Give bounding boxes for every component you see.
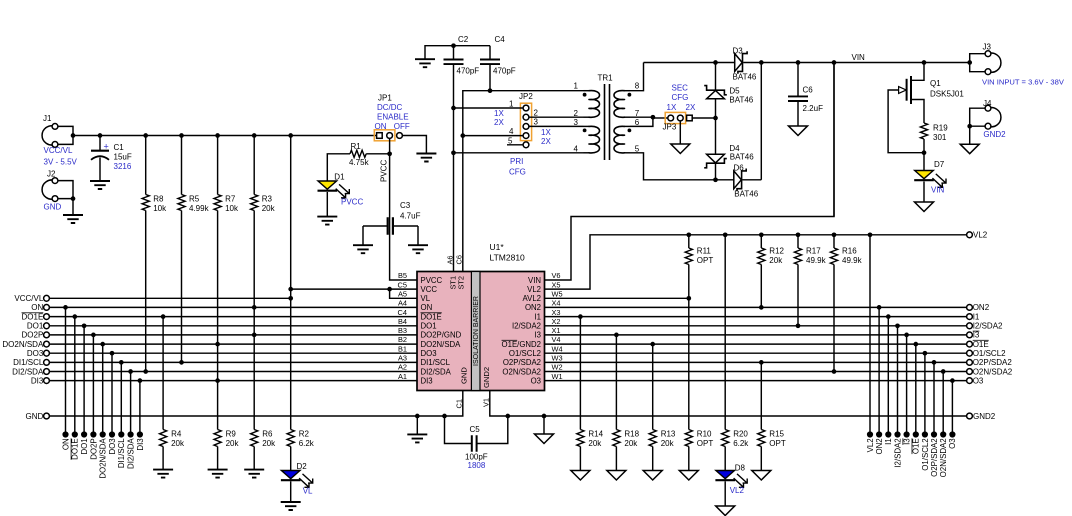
svg-text:R19: R19 [933,124,948,133]
resistor R20 [722,430,729,447]
wire D8 to ground [724,481,726,506]
connector J1 [42,126,55,145]
svg-text:2X: 2X [686,103,696,112]
wire DO1 fan drop [83,326,85,435]
resistor R4 [160,430,167,447]
wire O1/SCL2 row [545,352,967,354]
svg-text:D7: D7 [934,160,945,169]
svg-text:J2: J2 [47,170,56,179]
svg-text:Q1: Q1 [930,79,941,88]
wire O2N/SDA2 row [545,371,967,373]
svg-text:B4: B4 [398,317,407,326]
svg-text:PVCC: PVCC [380,160,389,182]
svg-text:DI1/SCL: DI1/SCL [421,358,451,367]
svg-text:I3: I3 [973,331,980,340]
svg-text:A5: A5 [398,290,407,299]
junction O1E fan [913,342,918,347]
wire D2 to ground [290,481,292,501]
wire GND row [49,391,462,417]
svg-text:DO2P: DO2P [22,331,44,340]
svg-text:3: 3 [574,118,579,127]
node ON2 test point [876,431,882,437]
svg-text:X3: X3 [552,308,561,317]
svg-text:DO1E: DO1E [71,438,80,460]
svg-text:O3: O3 [948,438,957,449]
svg-text:15uF: 15uF [114,153,132,162]
junction ST1 JP2 pin1 [451,106,456,111]
wire ON2 fan drop [878,307,880,434]
junction O2N/SDA2 fan [941,369,946,374]
transistor Q1 [910,76,912,104]
wire I3 fan drop [906,335,908,435]
wire I1 row [545,316,967,318]
svg-text:R10: R10 [697,430,712,439]
svg-text:O1/SCL2: O1/SCL2 [973,349,1006,358]
resistor R12 [758,248,765,265]
svg-text:R6: R6 [262,430,273,439]
svg-text:W5: W5 [552,290,563,299]
svg-text:2X: 2X [494,118,504,127]
capacitor C2 [444,60,464,65]
svg-text:ON: ON [375,122,387,131]
junction O1/SCL2 fan [923,351,928,356]
node O3 terminal [967,378,973,384]
junction R1 PVCC [387,151,392,156]
wire R19 to D7 [923,139,925,170]
jumper JP1 pin3 [397,133,403,139]
wire VL2 pin [545,235,967,289]
svg-text:OPT: OPT [769,439,786,448]
svg-text:VCC/VL: VCC/VL [44,146,73,155]
svg-text:20k: 20k [624,439,638,448]
svg-text:VCC/VL: VCC/VL [14,294,43,303]
svg-text:20k: 20k [588,439,602,448]
wire R20 column [724,235,726,430]
junction R5 DI1/SCL [179,360,184,365]
resistor R16 [830,248,837,265]
svg-text:B3: B3 [398,326,407,335]
wire J4 to ground [969,126,971,144]
svg-text:2X: 2X [541,137,551,146]
svg-text:JP2: JP2 [519,92,533,101]
wire O2P/SDA2 row [545,361,967,363]
svg-text:DI3: DI3 [31,376,44,385]
svg-text:I3: I3 [903,438,912,445]
svg-text:O3: O3 [531,376,541,385]
svg-text:W1: W1 [552,372,563,381]
junction DO1E fan [72,314,77,319]
svg-text:DO2P/GND: DO2P/GND [421,331,462,340]
jumper JP2 pin5 [523,142,529,148]
svg-text:C4: C4 [398,308,407,317]
wire O3 row [545,380,967,382]
svg-text:DO1: DO1 [80,438,89,454]
wire O2P/SDA2 fan drop [933,362,935,434]
junction R8 DI2/SDA [143,369,148,374]
node VL2 terminal [967,232,973,238]
svg-text:VL2: VL2 [866,438,875,452]
wire R17 to I2/SDA2 [797,265,799,326]
ground JP3 [671,144,690,154]
wire DI3 row [49,380,417,382]
svg-text:I1: I1 [973,312,980,321]
svg-text:1X: 1X [667,103,677,112]
wire JP1 off to ground [402,136,426,154]
svg-text:1X: 1X [541,128,551,137]
node I3 terminal [967,332,973,338]
svg-text:DI2/SDA: DI2/SDA [421,367,452,376]
svg-text:GND: GND [44,203,62,212]
connector J2 [42,180,55,199]
svg-text:O2N/SDA2: O2N/SDA2 [973,367,1013,376]
svg-text:C6: C6 [455,255,464,264]
svg-text:J4: J4 [983,99,992,108]
svg-text:DO1: DO1 [27,322,44,331]
svg-text:B1: B1 [398,344,407,353]
node VL2 test point [867,431,873,437]
svg-text:DO2N/SDA: DO2N/SDA [421,340,462,349]
wire JP2 pin4 [463,135,523,137]
junction R15 O2P [759,360,764,365]
svg-text:GND2: GND2 [973,412,996,421]
wire top rail [644,62,716,64]
svg-text:W2: W2 [552,363,563,372]
svg-text:20k: 20k [226,439,240,448]
wire DO2N/SDA row [49,343,417,345]
junction O3 fan [950,378,955,383]
junction J3 [967,60,972,65]
node GND2 terminal [967,413,973,419]
junction ST1 TR1 pin4 [451,150,456,155]
node O2P/SDA2 terminal [967,360,973,366]
svg-text:U1*: U1* [490,242,505,252]
resistor R9 [214,430,221,447]
resistor R5 [178,195,185,211]
ground R9 [208,470,228,478]
svg-text:DC/DC: DC/DC [377,103,403,112]
svg-text:3216: 3216 [114,162,132,171]
node O1E terminal [967,341,973,347]
wire ON fan drop [65,307,67,434]
svg-text:VIN: VIN [931,186,945,195]
svg-text:JP3: JP3 [663,122,677,131]
ground J4 [960,144,979,154]
node O1/SCL2 terminal [967,350,973,356]
svg-text:O1/SCL2: O1/SCL2 [921,438,930,470]
wire DO3 fan drop [111,353,113,434]
svg-text:D6: D6 [734,163,745,172]
capacitor C4 [480,60,500,65]
jumper JP2 pin1 [523,105,529,111]
svg-text:PVCC: PVCC [421,276,443,285]
svg-text:20k: 20k [262,439,276,448]
svg-text:1: 1 [509,100,514,109]
svg-text:OPT: OPT [697,439,714,448]
wire DO2P row [49,334,417,336]
transformer TR1 core [605,84,610,160]
svg-text:DI3: DI3 [421,376,433,385]
junction rail VL2 fan [868,232,873,237]
junction C5 left [442,414,447,419]
svg-text:A4: A4 [398,299,407,308]
svg-text:A2: A2 [398,363,407,372]
wire GND2 ground stub [543,416,545,434]
svg-text:J3: J3 [983,42,992,51]
wire I2/SDA2 row [545,325,967,327]
svg-text:VL2: VL2 [527,285,541,294]
svg-text:4.99k: 4.99k [189,204,210,213]
junction Q1 drain [922,60,927,65]
svg-text:DO1E: DO1E [22,312,44,321]
svg-text:DSK5J01: DSK5J01 [930,90,964,99]
svg-text:ON2: ON2 [525,303,541,312]
svg-text:C3: C3 [400,201,411,210]
svg-text:LTM2810: LTM2810 [490,253,526,263]
LED D2 [281,471,300,479]
svg-text:GND: GND [26,412,44,421]
wire ON row [49,306,417,308]
wire R18 to ground [615,447,617,471]
svg-text:DO2N/SDA: DO2N/SDA [99,438,108,479]
junction D4 bottom [713,177,718,182]
junction I2/SDA2 fan [895,323,900,328]
svg-text:B5: B5 [398,271,407,280]
wire C2C4 top rail [425,46,490,59]
svg-text:301: 301 [933,133,947,142]
svg-text:ON: ON [421,303,433,312]
svg-text:C5: C5 [398,280,407,289]
ground D7 [915,202,934,212]
ground D1 [317,217,337,225]
svg-text:R5: R5 [189,195,200,204]
resistor R1 [350,150,366,157]
svg-text:DO3: DO3 [27,349,44,358]
wire bus to R8 [145,136,147,195]
diode D6 [716,179,734,181]
wire J2 to ground [72,199,74,215]
svg-text:BAT46: BAT46 [734,190,758,199]
wire GND ground stub [416,416,418,434]
wire DO1E row [49,316,417,318]
svg-text:20k: 20k [262,204,276,213]
wire TR1 pin1 jog [463,91,584,272]
svg-text:D1: D1 [334,173,345,182]
junction C2 top [451,43,456,48]
svg-text:ON: ON [31,303,43,312]
wire ON2 row [545,306,967,308]
wire R20 to D8 [724,447,726,471]
svg-text:VL: VL [303,487,313,496]
wire JP2 pin5 stub [507,144,523,146]
svg-text:DI1/SCL: DI1/SCL [13,358,44,367]
svg-text:O3: O3 [973,376,984,385]
svg-text:V4: V4 [552,335,561,344]
svg-text:8: 8 [635,82,640,91]
svg-text:5: 5 [508,136,513,145]
transformer TR1 primary bottom [584,125,590,127]
junction rail R12 [759,232,764,237]
ground D8 [716,506,735,516]
wire O1E fan drop [915,344,917,434]
ground C3 left [353,245,373,253]
ground C2C4 [415,59,435,67]
wire R11 to AVL2 [688,265,690,299]
svg-text:X1: X1 [552,326,561,335]
svg-text:O1E: O1E [973,340,989,349]
wire C3 left ground [362,226,364,245]
node DO2P terminal [44,332,50,338]
wire R10 to ground [688,447,690,471]
svg-text:C2: C2 [458,35,469,44]
svg-text:PVCC: PVCC [341,198,363,207]
wire DI2/SDA row [49,371,417,373]
wire TR1 pin7 [630,116,653,118]
resistor R13 [649,430,656,447]
wire DI1/SCL row [49,361,417,363]
svg-text:C1: C1 [114,143,125,152]
wire PVCC vertical [390,138,417,280]
wire TR1 pin5 [630,153,716,180]
svg-text:O1E/GND2: O1E/GND2 [502,340,541,349]
wire R8 to DI2/SDA row [145,211,147,372]
junction center tap [651,115,656,120]
junction R3 ON [252,305,257,310]
ground GND row [407,434,427,442]
svg-text:DI1/SCL: DI1/SCL [117,438,126,468]
wire R16 to O2N/SDA2 [833,265,835,372]
junction R7 DO2N/SDA [215,342,220,347]
wire DO1E fan drop [74,317,76,435]
node DO1 terminal [44,323,50,329]
resistor R7 [214,195,221,211]
wire DI1/SCL fan drop [120,362,122,434]
transformer TR1 secondary bottom [625,125,631,127]
op-amp U1 body [417,272,545,391]
node O1E test point [913,431,919,437]
junction C4 TR1 pin1 [488,88,493,93]
node DO1E test point [72,431,78,437]
svg-text:R8: R8 [153,195,164,204]
svg-text:1X: 1X [494,109,504,118]
junction C1 [98,133,103,138]
svg-text:R9: R9 [226,430,237,439]
junction R16 O2N [832,369,837,374]
node ON test point [62,431,68,437]
wire O2N/SDA2 fan drop [942,372,944,435]
wire VL2 fan drop [869,235,871,435]
diode D4 [715,118,717,154]
svg-text:R7: R7 [225,195,236,204]
diode D5 [715,63,717,91]
svg-text:O2N/SDA2: O2N/SDA2 [502,367,541,376]
wire JP2 pin1 [454,107,524,109]
junction rail R11 [686,232,691,237]
wire R4 to ground [162,447,164,470]
resistor R8 [142,195,149,211]
svg-text:DO2P: DO2P [89,438,98,460]
svg-text:OPT: OPT [697,256,714,265]
svg-text:O1E: O1E [912,438,921,454]
transformer TR1 secondary top [625,90,631,92]
junction bus R7 [215,133,220,138]
svg-text:D8: D8 [735,464,746,473]
svg-text:1: 1 [574,82,579,91]
svg-text:10k: 10k [153,204,167,213]
jumper JP3 frame [665,112,685,123]
ground GND2 row [535,434,554,444]
junction GND2 ground [542,414,547,419]
wire JP2 pin3 [529,125,584,127]
junction VIN riser [832,60,837,65]
wire VCC bus [100,135,377,137]
svg-text:D5: D5 [729,87,740,96]
svg-text:BAT46: BAT46 [729,95,753,104]
wire DO3 row [49,352,417,354]
wire R1 right [366,153,389,155]
node DI1/SCL terminal [44,360,50,366]
svg-text:PRI: PRI [510,157,523,166]
svg-text:I2/SDA2: I2/SDA2 [973,322,1003,331]
node O1/SCL2 test point [922,431,928,437]
svg-text:SEC: SEC [672,83,689,92]
junction GND ground [415,414,420,419]
connector J3 [988,53,1001,72]
junction bus R5 [179,133,184,138]
svg-text:2.2uF: 2.2uF [803,104,824,113]
junction DO3 fan [110,351,115,356]
wire R5 to DI1/SCL row [181,211,183,363]
svg-text:VIN INPUT = 3.6V - 38V: VIN INPUT = 3.6V - 38V [982,77,1065,86]
junction J4 [967,124,972,129]
svg-text:6.2k: 6.2k [733,439,749,448]
ground D2 [281,502,301,510]
wire R4 column [162,317,164,430]
ground C1 [90,181,110,189]
junction D3 anode [713,60,718,65]
svg-text:3V - 5.5V: 3V - 5.5V [44,158,78,167]
node GND terminal [44,413,50,419]
junction DO2N/SDA fan [100,342,105,347]
diode D3 [716,62,735,64]
wire VCC/VL row [49,297,290,299]
svg-text:470pF: 470pF [493,67,516,76]
wire I1 fan drop [887,317,889,435]
transformer TR1 primary top [584,90,590,92]
ground R10 [679,471,698,481]
wire Q1 drain [911,63,924,81]
node O2N/SDA2 test point [940,431,946,437]
junction R2 bus [288,133,293,138]
wire R12 column [760,235,762,248]
wire O3 fan drop [951,381,953,435]
wire R7 to R9 column [217,211,219,430]
svg-text:VIN: VIN [852,53,866,62]
jumper JP2 frame [520,103,531,140]
node DO1 test point [81,431,87,437]
resistor R14 [577,430,584,447]
svg-text:ON2: ON2 [875,438,884,454]
wire R9 to ground [217,447,219,470]
svg-text:R13: R13 [661,430,676,439]
svg-text:GND2: GND2 [983,130,1006,139]
junction bus R3 [252,133,257,138]
wire Q1 source [911,100,924,124]
node DO2N/SDA test point [100,431,106,437]
junction J2 [71,196,76,201]
jumper JP2 pin2 [523,114,529,120]
svg-text:A3: A3 [398,354,407,363]
svg-text:VCC: VCC [421,285,438,294]
